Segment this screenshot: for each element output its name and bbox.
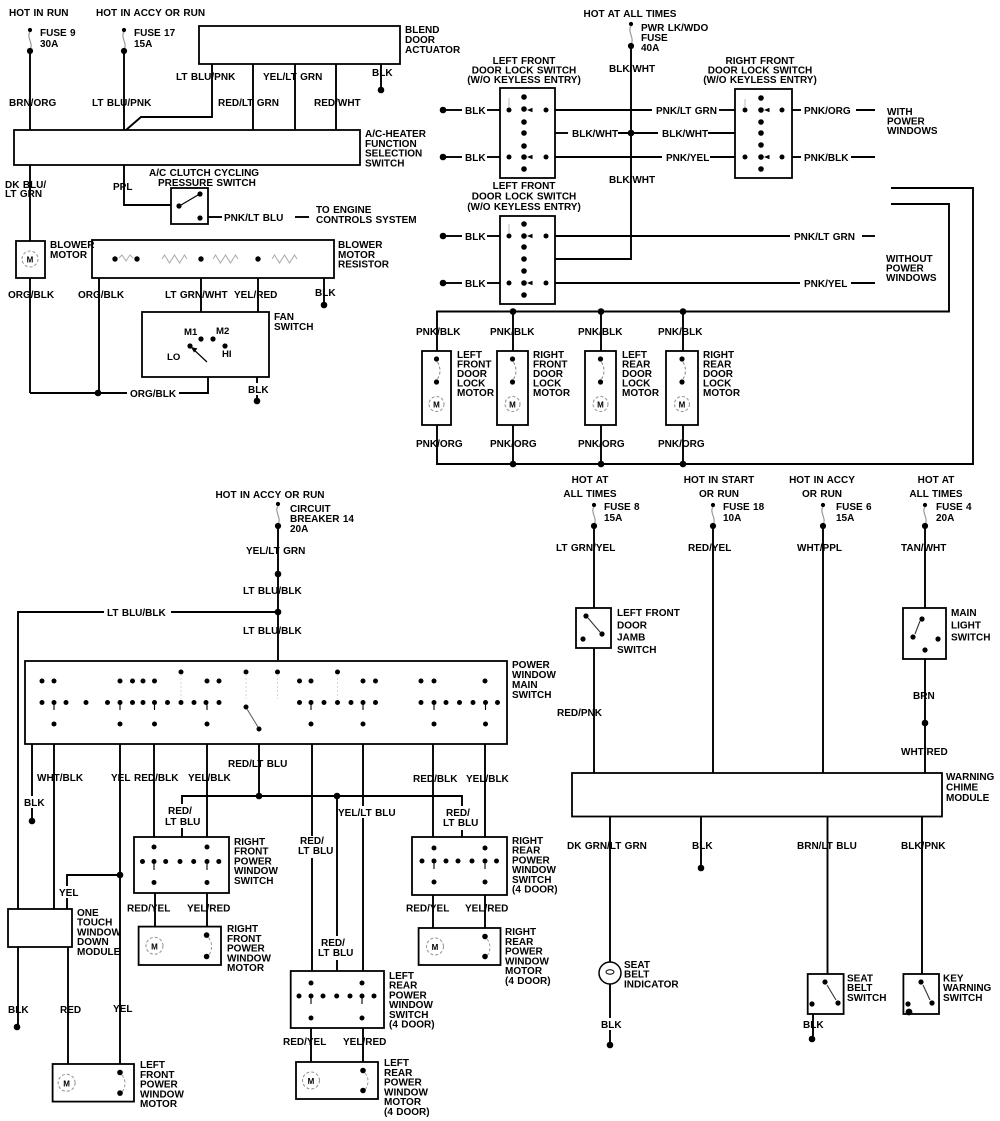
junction top bus 1	[510, 308, 517, 315]
svg-text:PNK/YEL: PNK/YEL	[804, 279, 847, 290]
svg-text:10A: 10A	[723, 513, 741, 524]
svg-text:WHT/PPL: WHT/PPL	[797, 543, 842, 554]
label LEFT FRONT DOOR LOCK MOTOR	[457, 350, 495, 399]
svg-text:LO: LO	[167, 352, 181, 363]
wire PNK/ORG drop 2	[512, 425, 514, 464]
label RED/PNK	[557, 708, 603, 719]
power window main switch box	[25, 661, 507, 744]
svg-text:ACTUATOR: ACTUATOR	[405, 45, 461, 56]
terminal dot BLK row1	[440, 107, 447, 114]
svg-text:OR RUN: OR RUN	[699, 489, 739, 500]
label PWR LK/WDO FUSE 40A	[641, 23, 708, 54]
label LT BLU/PNK actuator	[176, 72, 236, 83]
fan switch contacts M1 M2 LO HI	[167, 326, 232, 363]
svg-text:LT BLU/BLK: LT BLU/BLK	[243, 586, 303, 597]
svg-text:WHT/RED: WHT/RED	[901, 747, 948, 758]
label FUSE 17 15A	[134, 28, 176, 50]
junction BLK/WHT	[628, 130, 635, 137]
label PNK/LT BLU	[224, 213, 283, 224]
label BLOWER MOTOR RESISTOR	[338, 240, 390, 271]
label WARNING CHIME MODULE	[946, 772, 995, 804]
junction bottom bus 2	[598, 461, 605, 468]
right rear power window switch contacts	[420, 846, 500, 885]
svg-text:YEL: YEL	[113, 1004, 132, 1015]
wire YEL/RED	[257, 278, 259, 312]
label ONE TOUCH WINDOW DOWN MODULE	[77, 908, 121, 958]
svg-text:MAIN: MAIN	[951, 608, 977, 619]
svg-text:YEL/RED: YEL/RED	[187, 904, 230, 915]
junction RED/LT BLU 1	[256, 793, 263, 800]
label YEL 2	[56, 886, 80, 899]
label LEFT REAR DOOR LOCK MOTOR	[622, 350, 660, 399]
label PNK/BLK 4	[658, 327, 703, 338]
svg-text:BLK: BLK	[8, 1005, 29, 1016]
label BLK fan	[246, 383, 270, 396]
svg-text:MOTOR: MOTOR	[622, 388, 660, 399]
wire PNK/ORG drop 3	[600, 425, 602, 464]
svg-text:M: M	[27, 256, 34, 265]
label BRN	[913, 691, 935, 702]
wire LT BLU/BLK branch	[18, 612, 278, 909]
wire BRN / WHT/RED	[924, 659, 926, 773]
label PNK/LT GRN row1	[656, 106, 717, 117]
left rear power window motor symbol	[303, 1068, 369, 1094]
label BLK row1	[465, 106, 486, 117]
wire LT GRN/WHT	[200, 278, 202, 312]
wire YEL long	[119, 744, 121, 1064]
label WHT/RED	[901, 747, 948, 758]
svg-text:HI: HI	[222, 349, 232, 360]
svg-text:YEL/LT GRN: YEL/LT GRN	[263, 72, 322, 83]
right front door lock switch box	[735, 89, 792, 178]
label PNK/BLK 3	[578, 327, 623, 338]
left rear power window motor box	[296, 1062, 378, 1099]
wire RED/YEL RR	[432, 895, 434, 928]
wire RED/YEL chime	[712, 529, 714, 773]
svg-text:PNK/ORG: PNK/ORG	[416, 439, 463, 450]
svg-text:LT BLU: LT BLU	[165, 817, 200, 828]
label BLK/WHT lower	[609, 175, 655, 186]
header HOT AT ALL TIMES 3	[909, 475, 963, 500]
svg-text:M: M	[679, 401, 686, 410]
wire ORG/BLK fan switch	[30, 377, 208, 393]
svg-text:ORG/BLK: ORG/BLK	[130, 389, 177, 400]
label LEFT FRONT DOOR LOCK SWITCH 2 title	[467, 181, 581, 213]
label RIGHT REAR DOOR LOCK MOTOR	[703, 350, 741, 399]
label BLK row4	[465, 232, 486, 243]
wire RED/BLK to RR switch	[432, 744, 434, 837]
svg-text:MOTOR: MOTOR	[140, 1099, 178, 1110]
wire BLK row5 a	[446, 282, 462, 284]
header HOT IN ACCY OR RUN 2	[215, 490, 324, 501]
wire BLK module ground	[17, 947, 19, 1025]
svg-text:BLK/WHT: BLK/WHT	[662, 129, 708, 140]
svg-text:HOT AT: HOT AT	[572, 475, 609, 486]
svg-text:HOT IN ACCY: HOT IN ACCY	[789, 475, 855, 486]
label PNK/YEL row3	[666, 153, 709, 164]
junction bottom bus 3	[680, 461, 687, 468]
svg-text:(W/O KEYLESS ENTRY): (W/O KEYLESS ENTRY)	[703, 75, 817, 86]
wire YEL/LT GRN to main switch	[277, 529, 279, 660]
blower motor resistor box	[92, 240, 334, 278]
label BLK/WHT upper	[609, 64, 655, 75]
label ORG/BLK fan	[127, 387, 179, 400]
svg-text:ORG/BLK: ORG/BLK	[78, 290, 125, 301]
wire PNK/LT GRN row1 b	[719, 109, 735, 111]
label POWER WINDOW MAIN SWITCH	[512, 660, 556, 701]
label RIGHT FRONT DOOR LOCK SWITCH title	[703, 56, 817, 86]
wire BLK/WHT row2 b	[618, 132, 658, 134]
A/C clutch cycling pressure switch box	[171, 188, 208, 224]
wire PNK/BLK drop 2	[512, 312, 514, 352]
svg-text:DOOR LOCK SWITCH: DOOR LOCK SWITCH	[472, 192, 577, 203]
label YEL/RED LR	[343, 1037, 386, 1048]
label BLK indicator	[599, 1018, 623, 1031]
label LEFT REAR POWER WINDOW SWITCH	[389, 971, 435, 1031]
svg-text:BLK: BLK	[465, 153, 486, 164]
wire PNK/BLK drop 3	[600, 312, 602, 352]
svg-text:RED/YEL: RED/YEL	[406, 904, 449, 915]
label BLK row5	[465, 279, 486, 290]
svg-text:RED/BLK: RED/BLK	[134, 773, 179, 784]
junction ORG/BLK	[95, 390, 102, 397]
label PNK/ORG 2	[490, 439, 537, 450]
svg-text:(W/O KEYLESS ENTRY): (W/O KEYLESS ENTRY)	[467, 75, 581, 86]
svg-text:BLK: BLK	[465, 279, 486, 290]
label BLK actuator	[372, 68, 393, 79]
wire LT BLU/PNK from fuse 17	[123, 54, 125, 130]
label LT BLU/PNK	[92, 98, 152, 109]
wire BLK row3 a	[446, 156, 462, 158]
blower motor symbol	[22, 251, 38, 267]
svg-text:LT BLU/BLK: LT BLU/BLK	[243, 626, 303, 637]
label FUSE 8 15A	[604, 502, 640, 524]
label RED/YEL chime	[688, 543, 731, 554]
label RIGHT FRONT POWER WINDOW SWITCH	[234, 837, 278, 887]
ground dot BLK chime	[698, 865, 705, 872]
label PNK/BLK 2	[490, 327, 535, 338]
svg-text:FUSE 4: FUSE 4	[936, 502, 972, 513]
resistor elements	[112, 255, 297, 263]
label RED/LT BLU RR drop	[440, 806, 480, 830]
svg-text:YEL/LT GRN: YEL/LT GRN	[246, 546, 305, 557]
label YEL/LT GRN	[246, 546, 305, 557]
svg-text:PNK/LT BLU: PNK/LT BLU	[224, 213, 283, 224]
wire WHT/PPL	[822, 529, 824, 773]
right front power window switch contacts	[140, 845, 221, 886]
wire PNK/YEL row5 stub	[851, 282, 875, 284]
label BLK/WHT row2 left	[572, 129, 618, 140]
wire DK BLU/LT GRN	[29, 165, 31, 241]
label RED/BLK 2	[413, 774, 458, 785]
wire BLK row1 b	[487, 109, 500, 111]
svg-text:CONTROLS SYSTEM: CONTROLS SYSTEM	[316, 215, 417, 226]
svg-text:(4 DOOR): (4 DOOR)	[384, 1107, 430, 1118]
svg-text:MODULE: MODULE	[946, 793, 990, 804]
wire PNK/ORG a	[792, 109, 801, 111]
svg-text:PNK/BLK: PNK/BLK	[416, 327, 461, 338]
right rear door lock motor box	[666, 351, 698, 425]
wire YEL/RED RF	[206, 893, 208, 927]
svg-text:M: M	[151, 942, 158, 951]
wire PNK/BLK drop 4	[682, 312, 684, 352]
left front door lock motor symbol	[429, 356, 444, 411]
left front door lock switch 2 box	[500, 216, 555, 304]
label PPL	[113, 182, 132, 193]
wire LT BLU/PNK from actuator	[126, 64, 212, 130]
svg-text:M2: M2	[216, 326, 229, 337]
svg-text:LIGHT: LIGHT	[951, 620, 981, 631]
svg-text:RED/BLK: RED/BLK	[413, 774, 458, 785]
svg-text:M: M	[63, 1079, 70, 1088]
wire PNK/LT GRN row1 a	[555, 109, 652, 111]
label DK BLU/LT GRN	[5, 180, 46, 200]
svg-text:LT BLU/PNK: LT BLU/PNK	[176, 72, 236, 83]
svg-text:BLK: BLK	[465, 232, 486, 243]
svg-text:MOTOR: MOTOR	[457, 388, 495, 399]
label BLK/WHT row2 right	[662, 129, 708, 140]
svg-text:PNK/LT GRN: PNK/LT GRN	[794, 232, 855, 243]
label FUSE 9 30A	[40, 28, 76, 50]
label RED/WHT	[314, 98, 361, 109]
label LT BLU/BLK branch	[104, 606, 171, 619]
svg-text:YEL/LT BLU: YEL/LT BLU	[338, 808, 396, 819]
label LT GRN/WHT	[165, 290, 228, 301]
svg-text:ALL TIMES: ALL TIMES	[563, 489, 617, 500]
label PNK/ORG 4	[658, 439, 705, 450]
wire YEL/RED RR	[484, 895, 486, 928]
right rear power window switch box	[412, 837, 507, 895]
fuse PWR LK/WDO 40A	[628, 22, 634, 49]
svg-text:YEL/RED: YEL/RED	[234, 290, 277, 301]
junction RED/LT BLU 2	[334, 793, 341, 800]
wire ORG/BLK resistor	[98, 278, 100, 393]
label YEL/BLK 1	[188, 773, 232, 784]
label BLEND DOOR ACTUATOR	[405, 25, 461, 56]
label RIGHT FRONT DOOR LOCK MOTOR	[533, 350, 571, 399]
svg-text:HOT IN RUN: HOT IN RUN	[9, 8, 69, 19]
svg-text:PNK/ORG: PNK/ORG	[658, 439, 705, 450]
wire BRN/ORG	[29, 54, 31, 130]
svg-text:PNK/ORG: PNK/ORG	[804, 106, 851, 117]
key warning switch contacts	[905, 979, 934, 1015]
wire BLK/WHT row2 a	[555, 132, 568, 134]
svg-text:HOT IN START: HOT IN START	[684, 475, 754, 486]
svg-text:LEFT FRONT: LEFT FRONT	[617, 608, 680, 619]
wire WHT/BLK ground stub	[31, 744, 33, 819]
label DK GRN/LT GRN	[567, 841, 647, 852]
ground dot BLK actuator	[378, 87, 385, 94]
left front power window motor symbol	[58, 1070, 125, 1096]
label LT GRN/YEL	[556, 543, 615, 554]
svg-text:LT BLU/BLK: LT BLU/BLK	[107, 608, 167, 619]
svg-text:LT BLU: LT BLU	[298, 846, 333, 857]
wire PNK/ORG drop 4	[682, 425, 684, 464]
label BLK resistor	[315, 288, 336, 299]
svg-text:M1: M1	[184, 327, 198, 338]
ground dot BLK module	[14, 1024, 21, 1031]
dash to engine controls	[295, 216, 309, 218]
left front door lock switch 2 contacts	[507, 221, 549, 298]
A/C-heater function selection switch box	[14, 130, 360, 165]
svg-text:MODULE: MODULE	[77, 947, 121, 958]
svg-text:20A: 20A	[936, 513, 954, 524]
svg-text:15A: 15A	[604, 513, 622, 524]
svg-text:RED: RED	[60, 1005, 81, 1016]
svg-text:YEL/BLK: YEL/BLK	[466, 774, 510, 785]
junction YEL	[117, 872, 124, 879]
label PNK/LT GRN row4	[794, 232, 855, 243]
wire WHT/BLK to module	[53, 744, 55, 909]
svg-text:SWITCH: SWITCH	[943, 993, 982, 1004]
label RED/LT BLU RF drop	[162, 804, 200, 828]
svg-text:INDICATOR: INDICATOR	[624, 979, 679, 990]
pressure switch contacts	[176, 191, 202, 220]
svg-text:FUSE 6: FUSE 6	[836, 502, 872, 513]
label BLK/PNK	[901, 841, 946, 852]
circuit breaker 14 20A	[275, 502, 281, 529]
svg-text:MOTOR: MOTOR	[703, 388, 741, 399]
right front door lock motor box	[497, 351, 528, 425]
label BRN/LT BLU	[797, 841, 857, 852]
wire ORG/BLK blower motor	[29, 278, 31, 393]
label ORG/BLK left	[8, 290, 55, 301]
wire YEL/LT BLU to LR switch	[362, 744, 364, 971]
wire PNK/BLK a	[792, 156, 801, 158]
label PNK/BLK	[804, 153, 849, 164]
right rear door lock motor symbol	[675, 356, 690, 411]
svg-text:(4 DOOR): (4 DOOR)	[505, 976, 551, 987]
label YEL/RED RR	[465, 904, 508, 915]
ground dot BLK resistor	[321, 302, 328, 309]
svg-text:WHT/BLK: WHT/BLK	[37, 773, 84, 784]
svg-text:15A: 15A	[134, 39, 152, 50]
svg-text:HOT IN ACCY OR RUN: HOT IN ACCY OR RUN	[96, 8, 205, 19]
label YEL/LT BLU	[336, 806, 396, 819]
fan switch box	[142, 312, 269, 377]
svg-text:30A: 30A	[40, 39, 58, 50]
svg-text:PNK/BLK: PNK/BLK	[490, 327, 535, 338]
wire RED/LT BLU stub	[258, 744, 260, 796]
svg-text:BRN/ORG: BRN/ORG	[9, 98, 56, 109]
header HOT IN ACCY OR RUN 3	[789, 475, 855, 500]
label LT BLU/BLK lower	[243, 626, 303, 637]
svg-text:LT GRN: LT GRN	[5, 189, 42, 200]
ground dot BLK main switch	[29, 818, 36, 825]
svg-text:YEL/RED: YEL/RED	[343, 1037, 386, 1048]
svg-text:LT GRN/WHT: LT GRN/WHT	[165, 290, 228, 301]
svg-text:PNK/LT GRN: PNK/LT GRN	[656, 106, 717, 117]
right rear power window motor symbol	[427, 934, 491, 960]
left rear power window switch contacts	[297, 981, 377, 1021]
label PNK/YEL row5	[804, 279, 847, 290]
label ORG/BLK resistor	[78, 290, 125, 301]
left front door jamb switch box	[576, 608, 611, 648]
wire BLK row4 b	[487, 235, 500, 237]
label BLK seat belt	[803, 1020, 824, 1031]
fuse F17 15A	[121, 28, 127, 54]
label LEFT FRONT DOOR JAMB SWITCH	[617, 608, 680, 656]
terminal dot BLK row4	[440, 233, 447, 240]
label YEL 3	[113, 1004, 132, 1015]
label SEAT BELT INDICATOR	[624, 960, 679, 990]
fuse F4 20A	[922, 503, 928, 529]
junction top bus 2	[598, 308, 605, 315]
header HOT IN START OR RUN	[684, 475, 754, 500]
wire PNK/ORG bus bottom	[437, 188, 973, 464]
junction bottom bus 1	[510, 461, 517, 468]
wire PNK/LT BLU stub	[208, 216, 222, 218]
svg-text:(W/O KEYLESS ENTRY): (W/O KEYLESS ENTRY)	[467, 202, 581, 213]
svg-text:SWITCH: SWITCH	[234, 876, 273, 887]
label RED/LT BLU LR drop	[315, 936, 353, 960]
label BLK row3	[465, 153, 486, 164]
right front door lock switch contacts	[743, 95, 785, 172]
wire PNK/LT GRN row4 stub	[862, 235, 875, 237]
wire BLK row5 b	[487, 282, 500, 284]
label PNK/BLK 1	[416, 327, 461, 338]
svg-text:MOTOR: MOTOR	[227, 963, 265, 974]
wire PNK/LT GRN row4	[555, 235, 790, 237]
left front door lock switch contacts	[507, 94, 549, 172]
svg-text:LEFT FRONT: LEFT FRONT	[493, 181, 556, 192]
label A/C-HEATER FUNCTION SELECTION SWITCH	[365, 129, 427, 169]
main light switch contacts	[910, 616, 940, 652]
wire RED/WHT	[335, 64, 337, 130]
svg-text:HOT IN ACCY OR RUN: HOT IN ACCY OR RUN	[215, 490, 324, 501]
label RED/YEL LR	[283, 1037, 326, 1048]
svg-text:MOTOR: MOTOR	[50, 250, 88, 261]
wire BLK chime ground	[700, 817, 702, 867]
label RED	[60, 1005, 81, 1016]
svg-text:RED/WHT: RED/WHT	[314, 98, 361, 109]
label A/C CLUTCH CYCLING PRESSURE SWITCH	[149, 168, 259, 189]
svg-text:PNK/BLK: PNK/BLK	[658, 327, 703, 338]
svg-text:SWITCH: SWITCH	[274, 322, 313, 333]
label RED/LT GRN	[218, 98, 279, 109]
label BLK chime	[692, 841, 713, 852]
svg-text:40A: 40A	[641, 43, 659, 54]
wire BLK fan switch ground	[256, 377, 258, 399]
ground dot BLK indicator	[607, 1042, 614, 1049]
door jamb switch contacts	[580, 613, 604, 641]
label FUSE 18 10A	[723, 502, 765, 524]
svg-text:RED/LT BLU: RED/LT BLU	[228, 759, 287, 770]
wire RED/YEL LR	[310, 1028, 312, 1062]
header HOT IN RUN	[9, 8, 69, 19]
left front power window motor box	[53, 1064, 134, 1102]
wire YEL/BLK to RF switch	[206, 744, 208, 837]
svg-text:LT GRN/YEL: LT GRN/YEL	[556, 543, 615, 554]
svg-text:15A: 15A	[836, 513, 854, 524]
label YEL/BLK 2	[466, 774, 510, 785]
label YEL/LT GRN	[263, 72, 322, 83]
wire PNK/YEL row3 a	[555, 156, 662, 158]
svg-text:LT BLU: LT BLU	[443, 818, 478, 829]
svg-text:RED/YEL: RED/YEL	[688, 543, 731, 554]
wire BRN/LT BLU	[827, 817, 829, 975]
svg-text:WARNING: WARNING	[946, 772, 995, 783]
wire BLK row3 b	[487, 156, 500, 158]
wire BLK row1 a	[446, 109, 462, 111]
label BLK main switch	[22, 796, 46, 809]
svg-text:BLK: BLK	[248, 385, 269, 396]
label RED/YEL RR	[406, 904, 449, 915]
wire LT GRN/YEL	[593, 529, 595, 608]
left rear door lock motor symbol	[593, 356, 608, 411]
label PNK/ORG	[804, 106, 851, 117]
svg-text:YEL/BLK: YEL/BLK	[188, 773, 232, 784]
